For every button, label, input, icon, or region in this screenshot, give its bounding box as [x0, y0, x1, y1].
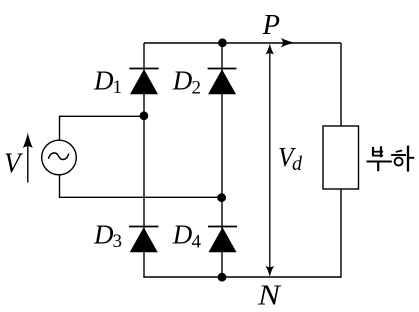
svg-text:2: 2 [192, 77, 202, 98]
svg-text:V: V [4, 149, 23, 180]
svg-text:D: D [172, 66, 193, 96]
svg-text:D: D [93, 220, 114, 250]
svg-text:d: d [292, 153, 303, 175]
svg-text:P: P [261, 10, 280, 41]
svg-text:D: D [172, 220, 193, 250]
svg-text:4: 4 [192, 231, 202, 252]
svg-text:N: N [257, 281, 282, 312]
svg-text:1: 1 [113, 77, 123, 98]
svg-text:3: 3 [113, 231, 123, 252]
svg-text:D: D [93, 66, 114, 96]
